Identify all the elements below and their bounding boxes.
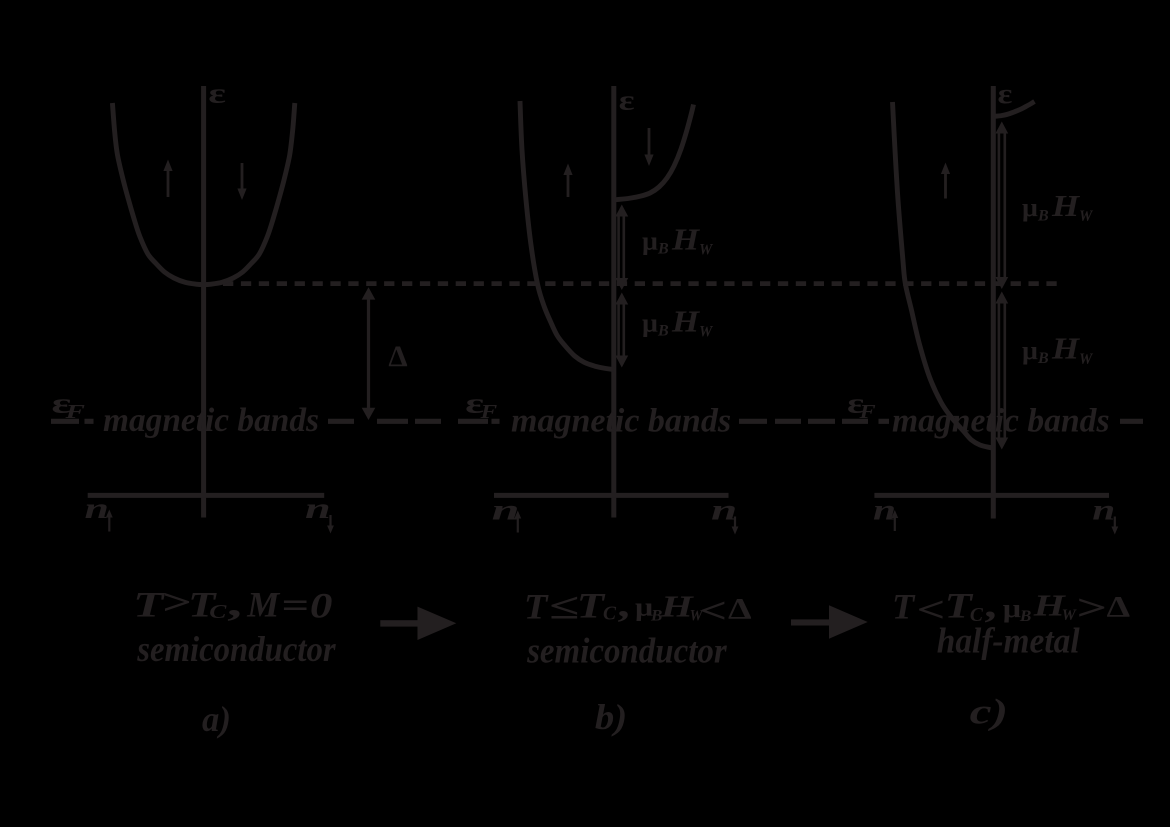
svg-text:W: W <box>699 242 714 259</box>
node big arrow b to c <box>791 619 830 625</box>
svg-text:>: > <box>161 582 191 622</box>
svg-text:B: B <box>657 241 669 258</box>
svg-text:B: B <box>1037 207 1049 224</box>
svg-text:ε: ε <box>998 79 1013 110</box>
svg-text:F: F <box>479 401 498 423</box>
wire panel b spin-down band <box>614 105 694 200</box>
node panel b spin-down arrow <box>648 128 651 155</box>
svg-text:ε: ε <box>208 79 226 110</box>
node panel c horizontal n axis <box>874 493 1109 498</box>
node panel b n-up subscript arrow <box>517 515 519 533</box>
wire panel b spin-up band <box>520 101 614 370</box>
svg-text:μ: μ <box>1003 594 1022 623</box>
svg-text:n: n <box>873 494 896 527</box>
wire panel a parabolic band <box>112 103 294 285</box>
svg-text:H: H <box>1051 331 1080 366</box>
node panel c spin-up arrow <box>944 173 947 199</box>
wire dashed zero-field band-edge reference line <box>223 281 1059 286</box>
svg-text:Δ: Δ <box>728 592 752 625</box>
svg-text:μ: μ <box>642 227 658 256</box>
svg-text:<: < <box>700 590 727 630</box>
svg-text:C: C <box>209 601 227 623</box>
svg-text:magnetic bands: magnetic bands <box>103 402 319 439</box>
node panel a spin-down arrow <box>241 163 244 190</box>
wire dash-dot Fermi level line <box>51 419 1143 424</box>
svg-text:c): c) <box>970 692 1008 732</box>
svg-text:C: C <box>603 603 617 625</box>
svg-text:magnetic bands: magnetic bands <box>511 403 731 440</box>
svg-text:half-metal: half-metal <box>937 620 1080 660</box>
svg-text:H: H <box>671 303 700 338</box>
svg-text:semiconductor: semiconductor <box>526 631 727 671</box>
svg-text:>: > <box>1075 588 1106 628</box>
node big arrow a to b <box>380 620 418 626</box>
wire panel c spin-up band <box>893 102 994 448</box>
node panel c n-down subscript arrow <box>1114 517 1116 531</box>
node panel c lower exchange splitting arrow <box>998 301 1001 440</box>
svg-text:M: M <box>246 585 281 625</box>
svg-text:semiconductor: semiconductor <box>136 629 336 669</box>
svg-text:F: F <box>64 401 86 423</box>
svg-text:Δ: Δ <box>388 340 407 373</box>
node panel a n-up subscript arrow <box>108 514 110 532</box>
svg-text:H: H <box>1051 188 1080 223</box>
svg-text:B: B <box>1037 350 1049 367</box>
svg-text:W: W <box>1079 351 1094 368</box>
node panel a spin-up arrow <box>167 170 170 197</box>
svg-text:a): a) <box>202 699 231 739</box>
svg-text:Δ: Δ <box>1107 591 1131 624</box>
node panel b energy axis <box>611 86 616 518</box>
svg-text:T: T <box>524 586 550 626</box>
node panel b horizontal n axis <box>494 493 729 498</box>
svg-text:≤: ≤ <box>549 586 579 626</box>
svg-text:,: , <box>618 585 632 625</box>
svg-text:T: T <box>892 587 916 627</box>
svg-text:n: n <box>305 492 331 525</box>
svg-text:=: = <box>281 585 309 625</box>
svg-text:n: n <box>492 494 520 527</box>
node delta gap arrow <box>367 295 370 411</box>
node panel b n-down subscript arrow <box>734 517 736 531</box>
svg-text:T: T <box>577 585 607 625</box>
svg-text:,: , <box>228 583 245 623</box>
svg-text:H: H <box>671 221 700 256</box>
svg-text:0: 0 <box>310 586 333 626</box>
svg-text:n: n <box>1092 494 1115 527</box>
wire panel c spin-down band <box>995 102 1035 117</box>
svg-text:W: W <box>1079 208 1094 225</box>
svg-text:F: F <box>858 401 876 423</box>
svg-text:W: W <box>699 324 714 341</box>
node panel c energy axis <box>991 86 996 519</box>
node panel a n-down subscript arrow <box>329 515 331 529</box>
svg-text:n: n <box>711 494 737 527</box>
svg-text:magnetic bands: magnetic bands <box>892 403 1110 440</box>
svg-text:b): b) <box>595 697 627 737</box>
svg-text:μ: μ <box>1022 193 1038 222</box>
svg-text:n: n <box>85 492 109 525</box>
node panel b spin-up arrow <box>567 174 570 197</box>
svg-text:,: , <box>985 585 999 625</box>
node panel c upper exchange splitting arrow <box>998 131 1001 279</box>
node panel b lower exchange splitting arrow <box>617 303 620 357</box>
node panel a energy axis <box>201 86 206 518</box>
svg-text:ε: ε <box>619 86 635 117</box>
node panel c n-up subscript arrow <box>894 515 896 532</box>
node panel a horizontal n axis <box>88 493 325 498</box>
node panel b upper exchange splitting arrow <box>617 214 620 280</box>
svg-text:μ: μ <box>1022 336 1038 365</box>
svg-text:μ: μ <box>642 309 658 338</box>
svg-text:B: B <box>657 323 669 340</box>
